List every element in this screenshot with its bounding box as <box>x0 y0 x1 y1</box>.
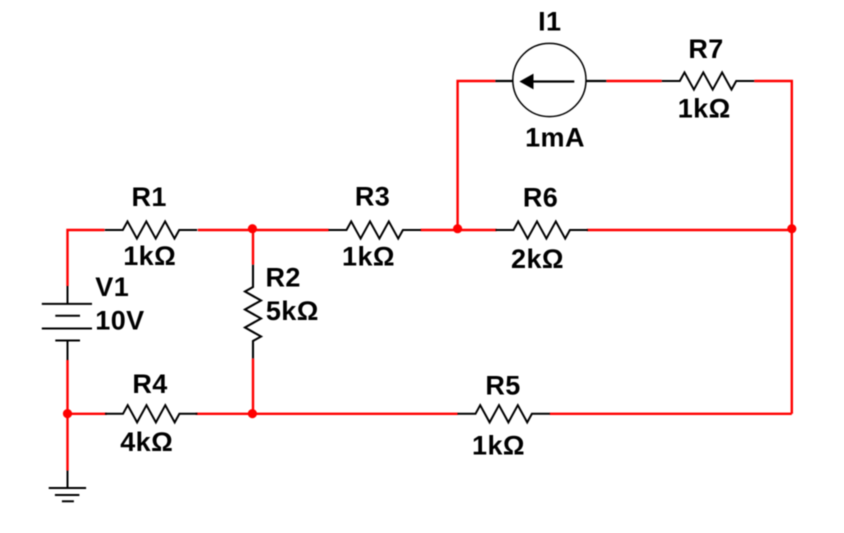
svg-text:1mA: 1mA <box>525 123 585 153</box>
svg-text:1kΩ: 1kΩ <box>342 242 395 272</box>
svg-text:1kΩ: 1kΩ <box>472 431 525 461</box>
svg-text:10V: 10V <box>95 305 144 335</box>
svg-text:R6: R6 <box>523 183 558 213</box>
svg-text:V1: V1 <box>95 272 129 302</box>
svg-text:I1: I1 <box>538 7 561 37</box>
svg-text:R2: R2 <box>266 263 301 293</box>
svg-text:4kΩ: 4kΩ <box>120 427 173 457</box>
svg-text:5kΩ: 5kΩ <box>266 296 319 326</box>
svg-text:R7: R7 <box>688 34 723 64</box>
svg-text:1kΩ: 1kΩ <box>123 241 176 271</box>
svg-text:2kΩ: 2kΩ <box>511 244 564 274</box>
svg-text:R5: R5 <box>485 371 520 401</box>
svg-text:R3: R3 <box>355 182 390 212</box>
svg-text:R1: R1 <box>132 182 167 212</box>
svg-text:R4: R4 <box>132 369 167 399</box>
svg-text:1kΩ: 1kΩ <box>678 94 731 124</box>
